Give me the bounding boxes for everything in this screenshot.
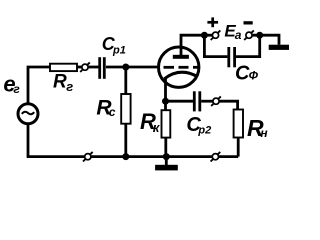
label Rn bbox=[247, 115, 268, 141]
node Ea minus junction bbox=[256, 32, 263, 39]
label Rg bbox=[53, 71, 73, 94]
wire junction down to Rc bbox=[124, 67, 127, 94]
wire bottom rail bbox=[27, 155, 239, 158]
minus sign bbox=[244, 21, 253, 24]
wire Cf right rail bbox=[236, 35, 260, 56]
wire output terminal to Rn bbox=[219, 101, 237, 109]
capacitor Cf bbox=[229, 47, 235, 67]
label Cp1 bbox=[102, 34, 126, 56]
wire Rc bottom to rail bbox=[124, 124, 127, 157]
label Rk bbox=[140, 109, 161, 135]
ground stem cathode bbox=[165, 157, 168, 165]
wire Rg to input terminal bbox=[77, 66, 82, 69]
label Cp2 bbox=[186, 114, 211, 137]
output terminal top bbox=[211, 96, 221, 106]
input terminal bottom bbox=[83, 152, 93, 162]
wire junction to plus terminal bbox=[204, 34, 212, 37]
output terminal bottom bbox=[211, 152, 221, 162]
wire Rn bottom to rail bbox=[237, 138, 240, 157]
svg-text:a: a bbox=[235, 28, 242, 42]
wire Cf left rail bbox=[204, 35, 227, 56]
wire terminal to Cp1 bbox=[88, 66, 98, 69]
wire from source top to Rg bbox=[28, 67, 50, 103]
triode anode bar bbox=[173, 55, 189, 59]
wire Cp2 to output terminal bbox=[201, 100, 212, 103]
wire minus terminal to top-right ground bbox=[253, 35, 279, 45]
resistor Rn bbox=[234, 110, 243, 138]
triode grid (dashed) bbox=[164, 66, 200, 69]
label eg bbox=[3, 72, 20, 97]
svg-text:Ф: Ф bbox=[249, 68, 259, 82]
node grid junction bbox=[122, 64, 129, 71]
svg-text:н: н bbox=[260, 126, 268, 140]
capacitor Cp1 bbox=[100, 57, 105, 79]
wire Rk bottom to rail bbox=[164, 138, 167, 157]
svg-text:с: с bbox=[109, 105, 116, 119]
label Cf bbox=[235, 62, 259, 84]
AC source eg bbox=[18, 104, 38, 124]
ground cathode bbox=[155, 165, 178, 171]
svg-text:г: г bbox=[66, 79, 73, 94]
node anode junction bbox=[201, 32, 208, 39]
svg-text:p2: p2 bbox=[197, 125, 211, 137]
node Rc bottom bbox=[122, 153, 129, 160]
triode envelope bbox=[159, 47, 199, 87]
ground top right bbox=[269, 45, 289, 50]
resistor Rk bbox=[162, 110, 171, 137]
plus sign bbox=[207, 17, 218, 27]
svg-text:p1: p1 bbox=[112, 45, 126, 57]
label Rc bbox=[96, 97, 115, 120]
cathode lead bbox=[164, 78, 167, 111]
wire Cp1 to tube grid bbox=[106, 66, 159, 69]
label Ea bbox=[224, 22, 241, 42]
wire source bottom to bottom rail bbox=[27, 124, 30, 157]
node cathode junction bbox=[162, 98, 169, 105]
svg-text:R: R bbox=[53, 71, 67, 92]
triode cathode arc bbox=[164, 72, 197, 79]
resistor Rc bbox=[121, 94, 130, 124]
wire cathode junction to Cp2 bbox=[166, 100, 194, 103]
svg-text:г: г bbox=[13, 82, 20, 96]
capacitor Cp2 bbox=[194, 91, 200, 111]
terminal Ea minus bbox=[244, 30, 254, 40]
input terminal top bbox=[80, 62, 90, 72]
terminal Ea plus bbox=[211, 30, 221, 40]
anode lead and top wire bbox=[181, 35, 204, 55]
resistor Rg bbox=[50, 64, 77, 71]
node cathode ground junction bbox=[163, 153, 170, 160]
